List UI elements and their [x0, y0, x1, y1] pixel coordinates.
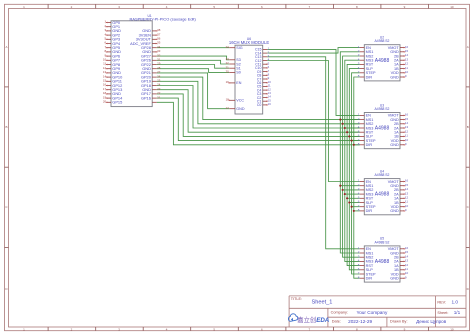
svg-text:A4988 S2: A4988 S2 — [375, 39, 390, 43]
svg-text:VCC: VCC — [236, 99, 244, 103]
svg-text:GP16: GP16 — [141, 95, 151, 100]
svg-text:EN: EN — [236, 81, 241, 85]
svg-text:DIR: DIR — [366, 75, 373, 79]
svg-text:16CH MUX MODULE: 16CH MUX MODULE — [229, 40, 269, 45]
svg-text:REV:: REV: — [437, 300, 446, 304]
svg-text:Sheet_1: Sheet_1 — [312, 299, 333, 305]
svg-text:GND: GND — [390, 143, 399, 147]
svg-text:10: 10 — [450, 327, 454, 331]
svg-text:20: 20 — [226, 70, 230, 74]
svg-text:A4988: A4988 — [375, 192, 390, 198]
svg-text:Date:: Date: — [332, 320, 341, 324]
svg-text:GND: GND — [390, 75, 399, 79]
svg-text:B: B — [467, 125, 469, 129]
svg-text:EDA: EDA — [316, 317, 330, 324]
svg-text:A4988 S2: A4988 S2 — [375, 240, 390, 244]
svg-text:GND: GND — [236, 107, 245, 111]
svg-text:1/1: 1/1 — [454, 310, 461, 315]
svg-text:SIG: SIG — [236, 46, 242, 50]
svg-text:DIR: DIR — [366, 277, 373, 281]
svg-text:S0: S0 — [236, 71, 241, 75]
svg-text:10: 10 — [450, 5, 454, 9]
svg-text:Денис Цупров: Денис Цупров — [416, 319, 447, 324]
svg-text:Sheet:: Sheet: — [437, 311, 448, 315]
svg-text:Company:: Company: — [331, 311, 348, 315]
svg-text:嘉立创: 嘉立创 — [297, 315, 316, 324]
svg-text:21: 21 — [157, 95, 161, 99]
svg-text:DIR: DIR — [366, 209, 373, 213]
svg-text:GND: GND — [390, 209, 399, 213]
svg-text:A4988 S2: A4988 S2 — [375, 173, 390, 177]
svg-text:17: 17 — [226, 106, 230, 110]
svg-text:Your Company: Your Company — [357, 310, 388, 315]
svg-text:A4988: A4988 — [375, 259, 390, 265]
svg-text:B: B — [5, 125, 7, 129]
svg-text:16: 16 — [268, 102, 272, 106]
svg-text:A4988: A4988 — [375, 126, 390, 132]
svg-text:Drawn By:: Drawn By: — [390, 320, 408, 324]
svg-text:DIR: DIR — [366, 143, 373, 147]
svg-text:GND: GND — [390, 277, 399, 281]
svg-text:24: 24 — [226, 45, 230, 49]
svg-text:RASPBERRY-PI-PICO (sausage Edi: RASPBERRY-PI-PICO (sausage Edit) — [130, 16, 197, 21]
svg-text:GP15: GP15 — [112, 100, 122, 105]
svg-text:A: A — [467, 45, 469, 49]
svg-text:2022-12-29: 2022-12-29 — [348, 319, 372, 324]
svg-text:1.0: 1.0 — [452, 300, 459, 305]
svg-text:C0: C0 — [257, 103, 262, 107]
svg-text:A4988: A4988 — [375, 58, 390, 64]
svg-text:TITLE:: TITLE: — [291, 297, 302, 301]
svg-text:A: A — [5, 45, 7, 49]
svg-text:A4988 S2: A4988 S2 — [375, 107, 390, 111]
